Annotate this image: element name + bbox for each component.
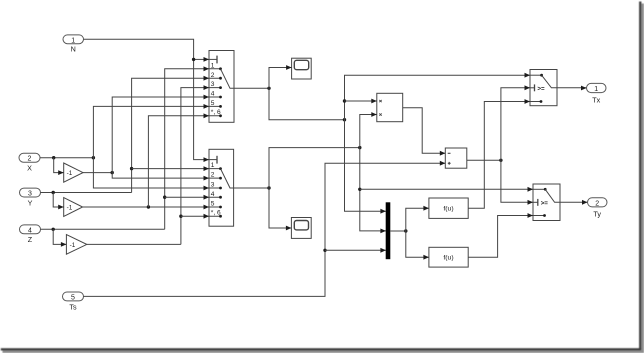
svg-text:-1: -1 [67, 204, 73, 211]
node -Z to SW2 port6 junction [179, 215, 182, 218]
wire N to switch controls [84, 39, 210, 159]
svg-text:N: N [71, 45, 76, 54]
wire U1 out up to Scope1 [269, 68, 292, 89]
node N-branch junction [192, 58, 195, 61]
pin arrows into P1 [371, 99, 377, 117]
wire SWTy output to outport Ty [560, 201, 588, 203]
wire Z to Gain3 input [53, 229, 66, 244]
wire -X vertical to SW1 port4 and SW2 port2 [112, 97, 209, 178]
wire Gain3 output [87, 243, 181, 245]
svg-text:2: 2 [211, 172, 215, 179]
node -X junction [111, 171, 114, 174]
pin arrows into SWTx [525, 73, 531, 104]
wire X row [40, 157, 93, 159]
outport 1 Tx [587, 83, 607, 104]
wire Y branch to SW2 port1 [132, 168, 209, 170]
gain input pin arrows [58, 170, 66, 247]
svg-text:>=: >= [537, 85, 545, 92]
inport 3 Y [20, 188, 41, 207]
wire Z vertical to SW1 port1 [165, 69, 209, 230]
fcn block F1 f(u) [429, 198, 468, 218]
node product tap [343, 99, 346, 102]
sum block S1 [445, 148, 467, 168]
svg-text:-1: -1 [67, 170, 73, 177]
wire X to Gain1 input [54, 158, 64, 173]
svg-text:2: 2 [211, 72, 215, 79]
wire S1 output [467, 159, 501, 161]
inport 5 Ts [63, 292, 84, 311]
wire U2 output [234, 187, 269, 189]
node S1 output junction [499, 159, 502, 162]
svg-text:3: 3 [211, 81, 215, 88]
pin arrow into outport Ty [582, 200, 588, 205]
pin arrow into F1 [423, 206, 429, 211]
wire SWTx output to outport Tx [557, 87, 587, 89]
wire U1 signal vertical: up to Switch Tx input1, down to Mux input1 [345, 75, 531, 211]
node Y to SW2 port1 junction [130, 167, 133, 170]
gain G1 -1 [64, 163, 83, 182]
product block P1 [377, 93, 403, 121]
pin arrows into U1 [204, 57, 210, 118]
wire Gain1 output [83, 172, 112, 174]
wire -Z branch to SW2 port6 [181, 215, 209, 217]
fcn block F2 f(u) [429, 247, 468, 267]
wire -Z vertical to SW1 port3 [181, 88, 209, 245]
svg-text:5: 5 [211, 100, 215, 107]
scope Scope2 [291, 218, 311, 239]
svg-text:Y: Y [28, 198, 33, 207]
wire S1 out to Tx and Ty switch controls [501, 88, 533, 203]
pin arrows into SWTy [528, 187, 534, 218]
wire U2 out up riser [269, 148, 360, 188]
wire F1 output to Switch Tx input3 [468, 102, 530, 209]
wire X vertical to SW1 port5 and SW2 port3 [93, 106, 209, 188]
svg-text:*, 6: *, 6 [211, 210, 221, 217]
svg-text:>=: >= [541, 200, 549, 207]
pin arrow into F2 [423, 255, 429, 260]
wire branch to Product input1 [345, 100, 377, 102]
gain G2 -1 [64, 198, 83, 217]
outport 2 Ty [588, 198, 608, 219]
pin arrow into Scope1 [286, 65, 292, 70]
wire Ts branch to Mux input3 [325, 249, 386, 251]
wire U2 out down to Scope2 [269, 188, 291, 228]
svg-text:5: 5 [211, 201, 215, 208]
wire -Y vertical to SW1 port6 [148, 116, 209, 207]
svg-text:5: 5 [71, 294, 75, 301]
wire branch to Switch Ty input1 [360, 188, 533, 190]
svg-text:Ty: Ty [593, 210, 601, 219]
svg-text:2: 2 [595, 200, 599, 207]
wire U2 signal vertical: up to Product input2, down to Mux input2 [360, 115, 386, 231]
wire Z row [41, 228, 165, 230]
wire Y row [41, 192, 132, 194]
svg-text:1: 1 [594, 86, 598, 93]
inport 2 X [19, 153, 40, 172]
wire M1 output [390, 230, 406, 232]
wire Y vertical to SW1 port2 [132, 78, 209, 192]
svg-text:-1: -1 [70, 242, 76, 249]
svg-text:4: 4 [28, 227, 32, 234]
multiport switch U1 (upper) [209, 51, 234, 123]
scope Scope1 [292, 58, 312, 79]
switch SWTx [530, 70, 557, 106]
node Z gain tap [52, 228, 55, 231]
pin arrows into M1 [380, 209, 386, 253]
wire Z branch to SW2 port4 [165, 196, 209, 198]
pin arrow into Scope2 [286, 226, 292, 231]
svg-text:f(u): f(u) [443, 255, 453, 262]
svg-text:2: 2 [28, 156, 32, 163]
wire Gain2 output to SW2 port5 [83, 206, 209, 208]
node Ty tap [358, 188, 361, 191]
svg-text:*, 6: *, 6 [211, 109, 221, 116]
node U2 bus junction [358, 146, 361, 149]
node -Y junction [147, 205, 150, 208]
node Ts to Mux branch [323, 249, 326, 252]
wire M1 out to Fcn1 and Fcn2 [406, 208, 429, 257]
wire F2 output to Switch Ty input3 [468, 216, 533, 258]
wire Y to Gain2 input [53, 193, 64, 208]
inport 4 Z [20, 225, 41, 244]
svg-text:Z: Z [28, 235, 33, 244]
node X gain tap [52, 156, 55, 159]
mux M1 [386, 202, 391, 259]
node U1 output junction [267, 87, 270, 90]
svg-text:X: X [27, 164, 32, 173]
svg-text:1: 1 [211, 62, 215, 69]
wire branch N to MultiportSwitch1 control [194, 58, 209, 60]
svg-text:Tx: Tx [592, 95, 600, 104]
svg-text:1: 1 [211, 162, 215, 169]
node M1 output junction [404, 229, 407, 232]
pin arrows into S1 [440, 151, 446, 166]
wire P1 output to Sum input1 [403, 108, 446, 153]
gain G3 -1 [66, 235, 86, 255]
inport 1 N [63, 35, 84, 54]
wire Ts to Sum input 2 [84, 163, 446, 296]
svg-text:f(u): f(u) [443, 206, 453, 213]
switch SWTy [533, 184, 560, 221]
node Z to SW2 port4 junction [163, 196, 166, 199]
svg-text:1: 1 [71, 37, 75, 44]
node Y gain tap [52, 191, 55, 194]
svg-text:Ts: Ts [69, 302, 77, 311]
svg-text:3: 3 [211, 182, 215, 189]
node bus junction at 344.5,119.7 [343, 118, 346, 121]
svg-text:4: 4 [211, 191, 215, 198]
pin arrow into outport Tx [581, 86, 587, 91]
svg-text:4: 4 [211, 91, 215, 98]
node X vertical junction [92, 156, 95, 159]
pin arrows into U2 [204, 157, 210, 218]
svg-text:3: 3 [28, 191, 32, 198]
node U2 output junction [267, 186, 270, 189]
wire U1 out down to bus [269, 88, 345, 119]
wire U1 output [234, 87, 269, 89]
multiport switch U2 (lower) [209, 149, 234, 226]
